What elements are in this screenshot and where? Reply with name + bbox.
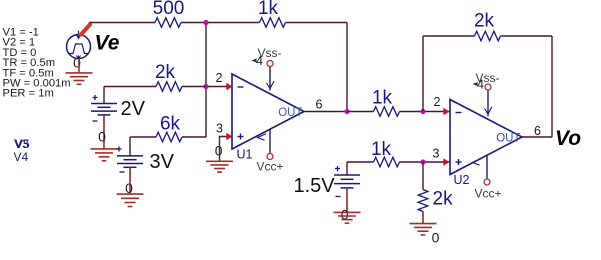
junction at summing node pin 2 bbox=[203, 84, 208, 89]
resistor R500 value 500 bbox=[153, 0, 185, 27]
svg-text:0: 0 bbox=[432, 230, 440, 246]
resistor R6 value 1k (to U2 pin 3) bbox=[371, 139, 400, 167]
pin arrow U1 pin 3 bbox=[226, 133, 232, 140]
svg-text:Vo: Vo bbox=[555, 127, 581, 150]
svg-text:2k: 2k bbox=[433, 189, 454, 210]
svg-text:Vcc+: Vcc+ bbox=[475, 187, 502, 201]
net labels V3 V5 (overlapping) bbox=[14, 137, 30, 151]
resistor R3 value 6k bbox=[156, 114, 182, 142]
svg-text:4: 4 bbox=[477, 78, 484, 92]
junction top (node between R500 and R1k) bbox=[203, 20, 208, 25]
ground (under V2) bbox=[91, 149, 118, 161]
svg-text:V4: V4 bbox=[14, 150, 29, 164]
junction at U2 inverting node bbox=[420, 109, 425, 114]
resistor R5 value 2k (U2 feedback) bbox=[474, 11, 501, 41]
svg-text:6: 6 bbox=[534, 124, 541, 138]
svg-text:1k: 1k bbox=[258, 0, 279, 19]
svg-text:2k: 2k bbox=[155, 62, 176, 83]
op-amp U1 bbox=[232, 67, 304, 154]
resistor R4 value 1k (between stages) bbox=[372, 88, 400, 117]
pulse source V1 parameter text bbox=[3, 27, 71, 100]
resistor R2 value 2k (input from 2V) bbox=[155, 62, 182, 91]
wire feedback right column down to U2 output bbox=[551, 36, 553, 137]
svg-text:OUT: OUT bbox=[496, 133, 520, 145]
resistor R1 value 1k (top feedback) bbox=[258, 0, 286, 27]
pulse voltage source V1 (Ve) bbox=[67, 31, 91, 60]
wire R6k to summing column bbox=[182, 136, 206, 138]
battery V4 1.5V bbox=[334, 162, 360, 212]
svg-text:1.5V: 1.5V bbox=[294, 175, 336, 197]
op-amp U2 bbox=[450, 90, 522, 180]
svg-text:3V: 3V bbox=[150, 151, 175, 173]
ground (under V3) bbox=[117, 194, 144, 206]
battery V3 3V bbox=[117, 137, 144, 194]
svg-text:2k: 2k bbox=[474, 11, 495, 32]
power terminal Vcc+ (U2 pin 7) bbox=[475, 179, 502, 201]
wire to U1 inverting input pin 2 bbox=[206, 86, 231, 88]
wire node down to R2k vertical bbox=[422, 162, 424, 190]
junction at U2 non-inverting node bbox=[420, 159, 425, 164]
svg-text:3: 3 bbox=[216, 122, 223, 136]
power terminal Vcc+ (U1 pin 7) bbox=[257, 154, 284, 174]
svg-text:V5: V5 bbox=[15, 137, 30, 151]
ground (under R2k) bbox=[410, 224, 437, 235]
wire R500 to R1k top bbox=[181, 22, 260, 24]
pin arrow U2 pin 3 bbox=[443, 158, 449, 165]
wire feedback column U2 bbox=[422, 36, 424, 112]
power terminal Vss- (U2 pin 4) bbox=[473, 71, 500, 92]
wire V4 to R1k (U2 non-inverting) bbox=[347, 161, 374, 163]
wire stub U1 pin 3 to ground bbox=[220, 137, 232, 162]
svg-text:500: 500 bbox=[153, 0, 185, 19]
svg-text:2: 2 bbox=[216, 71, 223, 85]
svg-text:4: 4 bbox=[256, 54, 263, 68]
svg-text:PER = 1m: PER = 1m bbox=[3, 88, 54, 100]
wire U1 output to node bbox=[304, 111, 347, 113]
svg-text:2V: 2V bbox=[121, 98, 146, 120]
wire R2k fb to right corner bbox=[501, 35, 553, 37]
svg-text:OUT: OUT bbox=[278, 107, 302, 119]
wire from V2 battery to R2k bbox=[104, 86, 156, 88]
wire top net from source to R500 bbox=[89, 22, 155, 24]
svg-text:1k: 1k bbox=[372, 88, 393, 109]
svg-text:6: 6 bbox=[316, 98, 323, 112]
wire feedback top left to R2k fb bbox=[423, 35, 475, 37]
svg-text:0: 0 bbox=[73, 55, 81, 71]
wire U1 output node to R1k mid bbox=[347, 111, 374, 113]
wire U2 output to Vo bbox=[522, 136, 552, 138]
wire R1k to right corner bbox=[286, 22, 348, 24]
svg-text:1k: 1k bbox=[371, 139, 392, 160]
wire R1k to U2 pin 3 bbox=[400, 161, 451, 163]
power terminal Vss- (U1 pin 4) bbox=[252, 46, 282, 68]
svg-text:3: 3 bbox=[433, 147, 440, 161]
pin arrow U1 pin 2 bbox=[226, 83, 232, 90]
svg-text:U2: U2 bbox=[454, 173, 470, 187]
wire R2k to summing node bbox=[182, 86, 206, 88]
resistor R7 value 2k (U2 pin3 to ground) bbox=[418, 189, 453, 212]
svg-text:6k: 6k bbox=[160, 114, 181, 135]
pin arrow U2 pin 2 bbox=[443, 108, 449, 115]
wire vertical feedback down to U1 output bbox=[346, 23, 348, 112]
svg-text:0: 0 bbox=[215, 143, 223, 159]
wire V3 to R6k bbox=[130, 136, 156, 138]
svg-text:U1: U1 bbox=[237, 148, 253, 162]
ground (source) bbox=[66, 59, 93, 85]
wire R2k vertical to ground bbox=[422, 212, 424, 224]
wire vertical summing node column bbox=[205, 23, 207, 138]
svg-text:2: 2 bbox=[434, 95, 441, 109]
wire R1k mid to U2 pin 2 node bbox=[400, 111, 451, 113]
svg-text:Vcc+: Vcc+ bbox=[257, 160, 284, 174]
voltage marker (red probe) on source output bbox=[81, 25, 90, 35]
ground (U1 pin 3) bbox=[206, 161, 233, 172]
svg-text:Ve: Ve bbox=[95, 32, 120, 55]
svg-text:0: 0 bbox=[98, 129, 106, 145]
ground (under V4 1.5V) bbox=[334, 212, 361, 223]
battery V2 2V bbox=[91, 87, 117, 149]
junction at U1 output node bbox=[344, 109, 349, 114]
